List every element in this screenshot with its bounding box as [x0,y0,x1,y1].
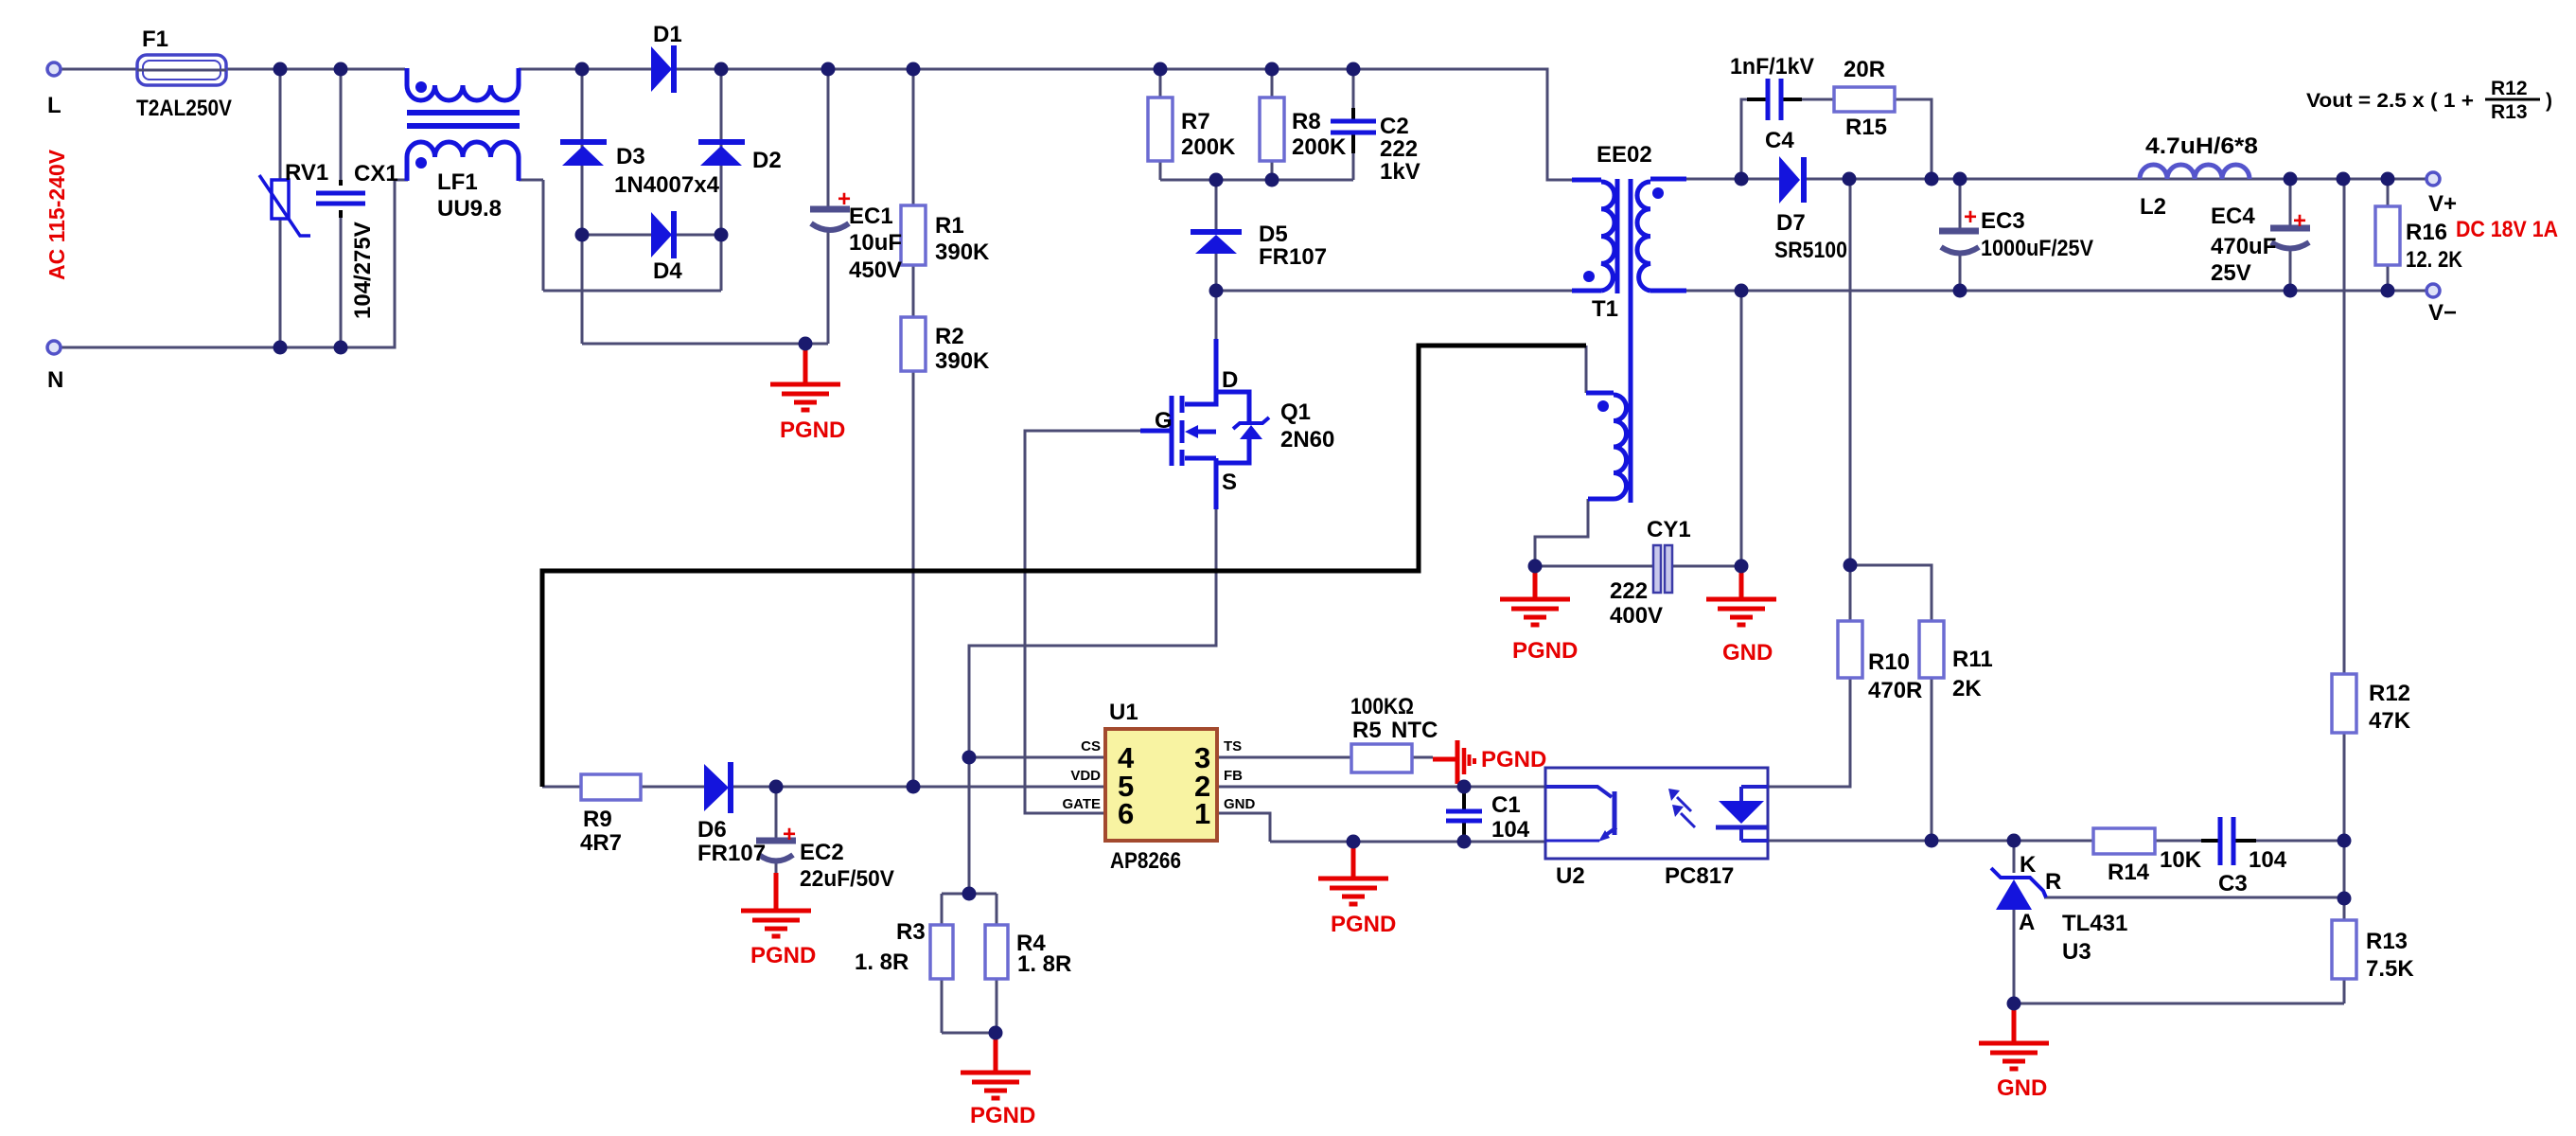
svg-text:R14: R14 [2108,860,2150,885]
svg-text:CY1: CY1 [1647,517,1691,542]
svg-text:PGND: PGND [970,1103,1035,1128]
svg-text:V−: V− [2428,300,2457,326]
svg-text:400V: 400V [1610,603,1663,629]
svg-text:PGND: PGND [750,943,816,968]
svg-text:L: L [47,93,62,118]
svg-text:1. 8R: 1. 8R [855,950,909,975]
svg-text:): ) [2546,90,2552,112]
svg-text:EE02: EE02 [1597,142,1652,168]
svg-text:C3: C3 [2218,871,2248,896]
svg-text:C2: C2 [1380,114,1409,139]
svg-text:FR107: FR107 [697,841,766,866]
svg-text:10uF: 10uF [849,230,902,256]
svg-text:1. 8R: 1. 8R [1017,951,1071,977]
svg-text:R9: R9 [583,807,612,832]
svg-text:EC3: EC3 [1981,208,2025,234]
svg-text:200K: 200K [1181,134,1236,160]
svg-text:1000uF/25V: 1000uF/25V [1981,236,2093,261]
svg-text:GATE: GATE [1062,796,1101,812]
svg-text:RV1: RV1 [285,160,328,186]
svg-text:UU9.8: UU9.8 [437,196,502,222]
svg-text:R16: R16 [2406,220,2447,245]
svg-text:S: S [1222,470,1237,495]
svg-text:12. 2K: 12. 2K [2406,247,2463,273]
svg-text:DC 18V 1A: DC 18V 1A [2456,217,2558,242]
svg-text:D6: D6 [697,817,727,843]
svg-text:R2: R2 [935,324,964,349]
svg-text:R13: R13 [2366,929,2408,954]
svg-text:470uF: 470uF [2211,234,2276,259]
svg-text:D7: D7 [1776,210,1806,236]
svg-text:T2AL250V: T2AL250V [136,96,232,121]
svg-text:+: + [838,186,851,212]
svg-text:AC 115-240V: AC 115-240V [44,149,69,280]
svg-text:D5: D5 [1259,222,1288,247]
svg-text:450V: 450V [849,257,902,283]
svg-text:R8: R8 [1292,109,1321,134]
svg-text:4.7uH/6*8: 4.7uH/6*8 [2145,133,2258,159]
svg-text:C1: C1 [1491,792,1521,818]
svg-text:R: R [2045,869,2061,895]
svg-text:VDD: VDD [1070,768,1101,784]
svg-text:6: 6 [1118,797,1134,830]
svg-text:R10: R10 [1868,649,1910,675]
svg-text:R5: R5 [1352,718,1382,743]
svg-text:100KΩ: 100KΩ [1350,694,1414,719]
svg-text:Q1: Q1 [1280,399,1311,425]
svg-text:25V: 25V [2211,260,2251,286]
svg-text:U2: U2 [1556,863,1585,889]
svg-text:U1: U1 [1109,700,1138,725]
svg-text:D4: D4 [653,258,682,284]
svg-text:+: + [2293,208,2306,234]
svg-text:104: 104 [2249,847,2287,873]
svg-text:D1: D1 [653,22,682,47]
svg-text:7.5K: 7.5K [2366,956,2414,982]
svg-text:1kV: 1kV [1380,159,1420,185]
svg-text:F1: F1 [142,27,168,52]
svg-text:PGND: PGND [1481,747,1546,772]
svg-text:EC2: EC2 [800,840,844,865]
svg-text:TL431: TL431 [2062,911,2127,936]
svg-text:4R7: 4R7 [580,830,622,856]
svg-text:AP8266: AP8266 [1110,848,1181,874]
svg-text:R13: R13 [2491,101,2528,123]
svg-text:1nF/1kV: 1nF/1kV [1730,54,1814,80]
svg-text:R12: R12 [2491,78,2528,99]
svg-text:CS: CS [1081,738,1101,754]
svg-text:+: + [783,822,796,847]
svg-text:D2: D2 [752,148,782,173]
svg-text:R1: R1 [935,213,964,239]
svg-text:PGND: PGND [780,417,845,443]
svg-text:1: 1 [1194,797,1210,830]
svg-text:EC4: EC4 [2211,204,2255,229]
svg-text:470R: 470R [1868,678,1922,703]
svg-text:104/275V: 104/275V [350,222,376,319]
svg-text:LF1: LF1 [437,169,478,195]
svg-text:PC817: PC817 [1665,863,1734,889]
svg-text:NTC: NTC [1391,718,1438,743]
svg-text:R15: R15 [1845,115,1887,140]
svg-text:+: + [1964,204,1977,230]
svg-text:390K: 390K [935,348,990,374]
svg-text:GND: GND [1997,1075,2047,1101]
svg-text:V+: V+ [2428,191,2457,217]
svg-text:2N60: 2N60 [1280,427,1334,453]
svg-text:TS: TS [1224,738,1242,754]
svg-text:R3: R3 [896,919,926,945]
svg-text:D3: D3 [616,144,645,169]
svg-text:D: D [1222,367,1238,393]
svg-text:G: G [1155,408,1173,434]
svg-text:390K: 390K [935,240,990,265]
svg-text:1N4007x4: 1N4007x4 [614,172,720,198]
svg-text:104: 104 [1491,817,1530,843]
svg-text:K: K [2020,852,2037,878]
svg-text:U3: U3 [2062,939,2091,965]
svg-text:FR107: FR107 [1259,244,1327,270]
svg-text:47K: 47K [2369,708,2411,734]
svg-text:Vout = 2.5 x ( 1 +: Vout = 2.5 x ( 1 + [2306,90,2474,112]
svg-text:C4: C4 [1765,128,1794,153]
svg-text:222: 222 [1610,578,1648,604]
svg-text:FB: FB [1224,768,1243,784]
svg-text:N: N [47,367,63,393]
svg-text:GND: GND [1722,640,1773,666]
svg-text:200K: 200K [1292,134,1347,160]
svg-text:222: 222 [1380,136,1418,162]
svg-text:R7: R7 [1181,109,1210,134]
svg-text:SR5100: SR5100 [1774,238,1847,263]
svg-text:CX1: CX1 [354,161,398,186]
svg-text:22uF/50V: 22uF/50V [800,866,894,892]
svg-text:L2: L2 [2140,194,2166,220]
svg-text:EC1: EC1 [849,204,893,229]
svg-text:R12: R12 [2369,681,2410,706]
svg-text:PGND: PGND [1331,912,1396,937]
svg-text:T1: T1 [1592,296,1618,322]
svg-text:2K: 2K [1952,676,1982,701]
svg-text:A: A [2019,910,2035,935]
svg-text:20R: 20R [1844,57,1885,82]
svg-text:PGND: PGND [1512,638,1578,664]
svg-text:R11: R11 [1952,647,1993,672]
svg-text:10K: 10K [2160,847,2202,873]
svg-text:GND: GND [1224,796,1256,812]
